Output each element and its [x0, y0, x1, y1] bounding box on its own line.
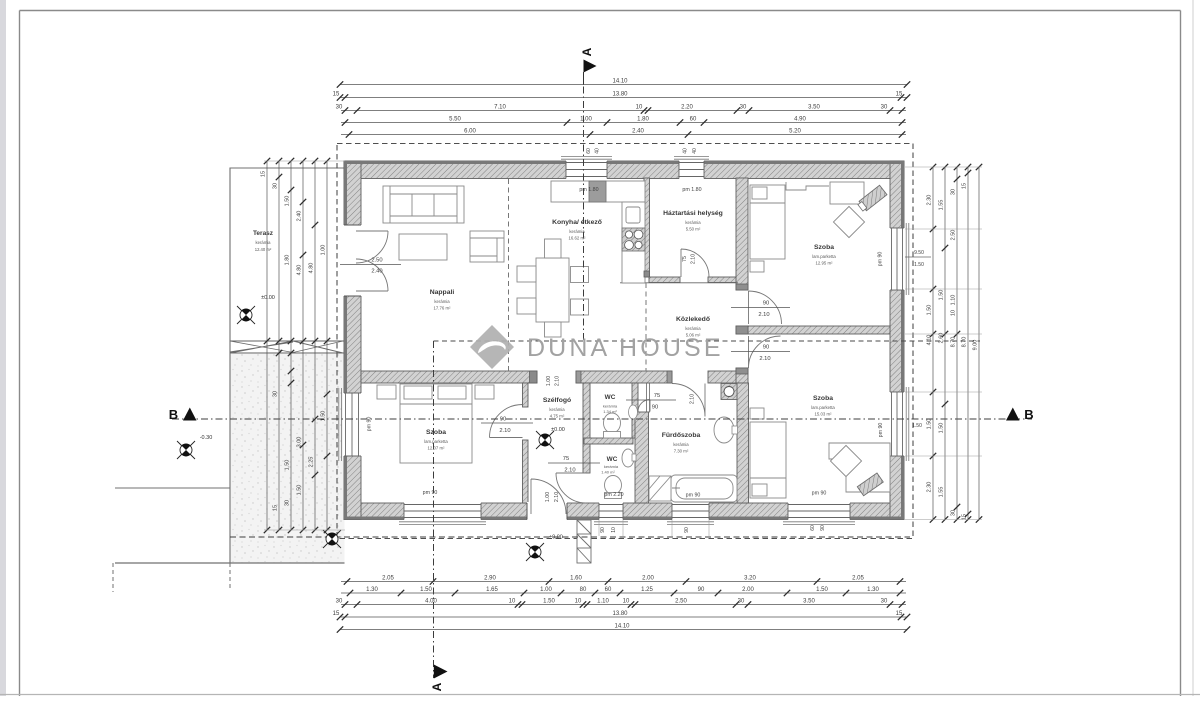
- svg-text:12.40 m²: 12.40 m²: [255, 247, 272, 252]
- svg-text:75: 75: [654, 393, 660, 399]
- laptop szoba BR (diagonal): [857, 473, 883, 496]
- section line B-B horizontal: [172, 418, 1032, 420]
- entry door opening: [527, 502, 567, 521]
- svg-text:A: A: [430, 682, 444, 691]
- window szoba BR east: [889, 392, 906, 456]
- toilet WC1: [604, 413, 621, 433]
- svg-text:pm 2.20: pm 2.20: [604, 492, 623, 498]
- svg-text:15: 15: [962, 514, 968, 520]
- svg-text:DUNA HOUSE: DUNA HOUSE: [527, 334, 723, 362]
- room label Haztartasi helyseg: [663, 210, 723, 232]
- section marker A top: [584, 60, 597, 73]
- svg-text:10: 10: [623, 599, 630, 605]
- wall left segment 1: [344, 161, 361, 225]
- wall end cap kitchen partition bottom: [644, 271, 650, 277]
- benchmark marker terrace: [237, 306, 255, 324]
- room label Konyha/etkezo: [552, 219, 602, 241]
- svg-text:75: 75: [563, 456, 569, 462]
- door szoba TR (90/2.10): [749, 291, 782, 324]
- svg-text:3.50: 3.50: [803, 599, 815, 605]
- svg-text:Fürdőszoba: Fürdőszoba: [662, 432, 701, 439]
- svg-text:1.00: 1.00: [540, 587, 552, 593]
- svg-text:90: 90: [500, 417, 506, 423]
- svg-text:30: 30: [738, 599, 745, 605]
- svg-text:15: 15: [896, 611, 903, 617]
- room label Szelfogo: [543, 397, 571, 419]
- svg-text:60: 60: [586, 148, 592, 154]
- svg-text:60: 60: [810, 525, 816, 531]
- door haztartasi (75/2.10): [681, 249, 709, 277]
- wall left segment 3: [344, 456, 361, 520]
- kitchen sink: [626, 207, 640, 223]
- partition stub between doors: [736, 326, 748, 334]
- svg-text:40: 40: [683, 148, 689, 154]
- building outer edge dark line: [346, 163, 903, 519]
- svg-text:1.80: 1.80: [637, 117, 649, 123]
- svg-text:1.50: 1.50: [939, 290, 945, 301]
- desk szoba TR: [830, 182, 864, 204]
- svg-text:10: 10: [951, 310, 957, 316]
- svg-text:1.50: 1.50: [543, 599, 555, 605]
- room label Kozlekedo: [676, 316, 710, 338]
- wall szelfogo right: [583, 383, 590, 473]
- svg-text:13.80: 13.80: [612, 611, 628, 617]
- wall szelfogo left upper: [523, 383, 529, 407]
- svg-text:kerámia: kerámia: [685, 220, 701, 225]
- kitchen counter top run: [551, 181, 645, 202]
- wardrobe shelf szoba TR: [786, 182, 829, 190]
- svg-text:1.10: 1.10: [597, 599, 609, 605]
- benchmark marker terrace corner: [323, 530, 341, 548]
- entry door leaf and arc: [531, 479, 566, 514]
- svg-text:2.10: 2.10: [555, 376, 561, 386]
- benchmark marker -0.30: [177, 441, 195, 459]
- svg-text:8.70: 8.70: [962, 337, 968, 348]
- svg-text:4.10: 4.10: [927, 335, 933, 346]
- window WC2 south: [599, 502, 623, 521]
- svg-text:2.30: 2.30: [927, 482, 933, 493]
- svg-text:80: 80: [580, 587, 587, 593]
- svg-text:kerámia: kerámia: [685, 326, 701, 331]
- left chain 2: [273, 158, 283, 533]
- svg-text:2.30: 2.30: [927, 195, 933, 206]
- plot boundary lines: [115, 487, 230, 489]
- room label Szoba top-right: [812, 244, 836, 266]
- svg-text:14.10: 14.10: [612, 79, 628, 85]
- section line A-A horizontal jog: [434, 340, 981, 342]
- wall bathroom right: [737, 383, 749, 503]
- shower tray bathroom: [649, 476, 671, 501]
- partition stub above mid wall: [736, 368, 748, 383]
- svg-text:1.80: 1.80: [285, 255, 291, 266]
- svg-text:2.90: 2.90: [484, 576, 496, 582]
- svg-text:13.80: 13.80: [612, 92, 628, 98]
- svg-text:10: 10: [509, 599, 516, 605]
- left chain 5: [309, 158, 319, 533]
- svg-text:30: 30: [881, 105, 888, 111]
- svg-text:2.50: 2.50: [675, 599, 687, 605]
- window kitchen (pm 1.80): [566, 160, 607, 180]
- svg-text:2.05: 2.05: [852, 576, 864, 582]
- svg-text:90: 90: [820, 525, 826, 531]
- svg-text:12.95 m²: 12.95 m²: [816, 261, 834, 266]
- svg-text:kerámia: kerámia: [256, 240, 272, 245]
- svg-text:3.50: 3.50: [808, 105, 820, 111]
- svg-text:30: 30: [273, 183, 279, 189]
- benchmark marker szelfogo: [536, 431, 554, 449]
- roof overhang dashed outline: [337, 144, 913, 539]
- svg-text:Szélfogó: Szélfogó: [543, 397, 571, 404]
- svg-text:2.40: 2.40: [632, 129, 644, 135]
- svg-text:Közlekedő: Közlekedő: [676, 316, 710, 323]
- dim chain top row 1 (14.10): [337, 79, 910, 88]
- wall top-left segment: [344, 161, 566, 179]
- svg-text:2.10: 2.10: [499, 428, 510, 434]
- svg-text:2.20: 2.20: [681, 105, 693, 111]
- svg-text:B: B: [169, 407, 178, 422]
- svg-text:B: B: [1024, 407, 1033, 422]
- svg-text:1.50: 1.50: [939, 423, 945, 434]
- svg-text:2.25: 2.25: [309, 457, 315, 468]
- door szoba BL (90/2.10): [490, 405, 523, 438]
- right extension lines: [905, 166, 982, 168]
- svg-text:5.20: 5.20: [789, 129, 801, 135]
- svg-text:1.50: 1.50: [321, 411, 327, 422]
- svg-text:4.80: 4.80: [309, 263, 315, 274]
- Duna House watermark logo diamond: [470, 325, 514, 369]
- svg-text:60: 60: [690, 117, 697, 123]
- wall haztartasi bottom-left: [649, 277, 680, 283]
- svg-text:Szoba: Szoba: [813, 395, 833, 402]
- svg-text:1.50: 1.50: [914, 262, 924, 268]
- left chain 6: [321, 158, 331, 533]
- svg-text:8.70: 8.70: [951, 337, 957, 348]
- wall szelfogo left lower: [523, 440, 529, 503]
- svg-text:30: 30: [881, 599, 888, 605]
- section marker B right: [1006, 408, 1020, 421]
- svg-text:A: A: [580, 47, 594, 56]
- svg-text:WC: WC: [605, 394, 616, 401]
- bed szoba BL: [400, 384, 472, 463]
- svg-text:kerámia: kerámia: [603, 404, 618, 409]
- dim chain bottom row 5 (14.10): [337, 624, 910, 633]
- svg-text:90: 90: [763, 301, 769, 307]
- wall end cap mid wall 2 right: [667, 371, 672, 383]
- section marker A bottom: [434, 665, 448, 679]
- dim chain top row 5: [341, 129, 906, 138]
- window haztartasi (pm 1.80): [679, 160, 704, 180]
- svg-text:pm 90: pm 90: [686, 493, 701, 499]
- svg-text:4.80: 4.80: [297, 265, 303, 276]
- wall bottom segment 5: [709, 503, 788, 520]
- open-plan divider konyha/kozlekedo: [645, 283, 647, 371]
- wall end cap mid wall 2 left: [576, 371, 581, 383]
- svg-text:30: 30: [740, 105, 747, 111]
- svg-text:17.76 m²: 17.76 m²: [434, 306, 452, 311]
- svg-text:1.00: 1.00: [321, 245, 327, 256]
- partition kitchen-haztartasi: [644, 178, 650, 277]
- chair szoba BR (rotated): [830, 445, 861, 476]
- page frame: [20, 10, 1181, 12]
- svg-text:2.10: 2.10: [758, 312, 769, 318]
- svg-text:90: 90: [763, 345, 769, 351]
- wall left segment 2: [344, 296, 361, 393]
- window bathroom south: [672, 502, 709, 521]
- svg-text:4.90: 4.90: [794, 117, 806, 123]
- svg-text:1.55: 1.55: [939, 487, 945, 498]
- room label Furdoszoba: [662, 432, 701, 454]
- dim chain bottom row 2: [341, 587, 906, 596]
- window szoba TR east: [889, 228, 906, 290]
- wall WC1-WC2: [584, 438, 633, 444]
- dining table: [536, 258, 569, 322]
- svg-text:15: 15: [261, 171, 267, 177]
- ground level dashed line below house: [230, 536, 910, 538]
- wall szoba TR south (thin): [748, 326, 890, 334]
- svg-text:pm 90: pm 90: [367, 417, 373, 432]
- svg-text:1.10: 1.10: [951, 295, 957, 306]
- dim chain top row 2 (13.80): [333, 92, 911, 101]
- left chain 4: [297, 158, 307, 533]
- terrace edge / ramp symbol: [230, 340, 345, 342]
- svg-text:16.62 m²: 16.62 m²: [569, 236, 587, 241]
- svg-text:15: 15: [333, 611, 340, 617]
- svg-text:7.10: 7.10: [494, 105, 506, 111]
- wall right segment 1: [890, 161, 904, 228]
- svg-text:1.50: 1.50: [297, 485, 303, 496]
- chair szoba TR (rotated): [833, 206, 864, 237]
- svg-text:90: 90: [698, 587, 705, 593]
- svg-text:1.50: 1.50: [927, 419, 933, 430]
- armchair nappali: [470, 231, 504, 262]
- kitchen counter right run: [622, 202, 645, 283]
- coffee table nappali: [399, 234, 447, 260]
- svg-text:90: 90: [684, 527, 690, 533]
- nightstand szoba BL left: [377, 385, 396, 399]
- right chain 2: [939, 164, 949, 523]
- wall bottom segment 6: [850, 503, 904, 520]
- wall bottom segment 2: [481, 503, 527, 520]
- wall end cap mid wall 1: [530, 371, 538, 383]
- svg-text:75: 75: [682, 256, 688, 262]
- svg-text:1.34 m²: 1.34 m²: [603, 409, 617, 414]
- svg-text:1.50: 1.50: [285, 196, 291, 207]
- wall right segment 3: [890, 456, 904, 520]
- right chain 3: [951, 164, 961, 523]
- svg-text:1.50: 1.50: [285, 460, 291, 471]
- left chain 1: [261, 158, 271, 533]
- svg-text:10: 10: [575, 599, 582, 605]
- svg-text:5.50 m²: 5.50 m²: [686, 227, 701, 232]
- svg-text:1.00: 1.00: [580, 117, 592, 123]
- washing machine bathroom: [721, 384, 737, 400]
- svg-text:4.75 m²: 4.75 m²: [550, 414, 565, 419]
- svg-text:Konyha/ étkező: Konyha/ étkező: [552, 219, 602, 226]
- svg-text:30: 30: [951, 510, 957, 516]
- svg-text:60: 60: [605, 587, 612, 593]
- wall WC1 right: [632, 383, 638, 438]
- svg-text:10: 10: [611, 527, 617, 533]
- svg-text:3.00: 3.00: [297, 437, 303, 448]
- wall top-right segment: [704, 161, 904, 179]
- page left gray strip: [0, 0, 6, 696]
- svg-text:Szoba: Szoba: [426, 429, 446, 436]
- dining chairs: [517, 239, 589, 337]
- svg-text:1.65: 1.65: [486, 587, 498, 593]
- svg-text:9.00: 9.00: [973, 340, 979, 351]
- window szoba BR south: [788, 502, 850, 521]
- svg-text:2.10: 2.10: [564, 468, 575, 474]
- wall WC2-bathroom: [635, 412, 649, 503]
- svg-text:Szoba: Szoba: [814, 244, 834, 251]
- svg-text:pm 90: pm 90: [423, 490, 438, 496]
- svg-text:Háztartási helység: Háztartási helység: [663, 210, 723, 217]
- door bathroom from corridor: [672, 383, 705, 416]
- terrace double door leaves and swing arcs: [356, 231, 388, 263]
- laptop szoba TR (diagonal): [857, 185, 887, 212]
- svg-text:pm 90: pm 90: [878, 252, 884, 267]
- svg-text:2.05: 2.05: [382, 576, 394, 582]
- svg-text:1.30: 1.30: [366, 587, 378, 593]
- svg-text:14.10: 14.10: [614, 624, 630, 630]
- svg-text:30: 30: [336, 599, 343, 605]
- terrace door opening: [343, 225, 362, 296]
- svg-text:30: 30: [951, 189, 957, 195]
- cooktop: [622, 228, 645, 251]
- partition haztartasi-szoba TR: [736, 178, 748, 290]
- left chain 3: [285, 158, 295, 533]
- wall bottom segment 3: [567, 503, 599, 520]
- svg-text:2.10: 2.10: [759, 356, 770, 362]
- svg-text:kerámia: kerámia: [434, 299, 450, 304]
- svg-text:2.00: 2.00: [742, 587, 754, 593]
- room label Szoba bottom-right: [811, 395, 835, 417]
- bed szoba TR: [750, 185, 785, 272]
- washbasin bathroom: [714, 417, 734, 443]
- door WC1 small swing: [638, 400, 650, 412]
- mid wall segment 3: [708, 371, 738, 383]
- dim chain top row 4: [341, 117, 906, 126]
- svg-text:±0.00: ±0.00: [549, 535, 563, 541]
- svg-text:WC: WC: [607, 456, 618, 463]
- wall top-middle segment: [607, 161, 679, 179]
- svg-text:lam.parketta: lam.parketta: [424, 439, 448, 444]
- nightstand szoba BL right: [475, 385, 494, 399]
- desk szoba BR (L-shape): [829, 443, 890, 492]
- svg-text:2.10: 2.10: [691, 254, 697, 264]
- wall haztartasi bottom-right: [708, 277, 737, 283]
- wall bottom segment 4: [623, 503, 672, 520]
- svg-text:kerámia: kerámia: [569, 229, 585, 234]
- ground stipple area left of house: [230, 354, 345, 563]
- svg-text:40: 40: [595, 148, 601, 154]
- svg-text:-0.30: -0.30: [200, 435, 213, 441]
- room label Szoba bottom-left: [424, 429, 448, 451]
- svg-text:lam.parketta: lam.parketta: [812, 254, 836, 259]
- svg-text:lam.parketta: lam.parketta: [811, 405, 835, 410]
- benchmark marker entry: [526, 543, 544, 561]
- svg-text:pm 90: pm 90: [878, 423, 884, 438]
- svg-text:Nappali: Nappali: [430, 289, 455, 296]
- svg-text:±0.00: ±0.00: [551, 427, 565, 433]
- room label Nappali: [430, 289, 455, 311]
- svg-text:2.50: 2.50: [371, 258, 382, 264]
- svg-text:1.50: 1.50: [816, 587, 828, 593]
- dim chain bottom row 1: [341, 576, 906, 585]
- dim chain top row 3: [336, 105, 906, 114]
- svg-text:15: 15: [962, 183, 968, 189]
- svg-text:Terasz: Terasz: [253, 230, 274, 237]
- svg-text:10: 10: [636, 105, 643, 111]
- svg-text:15.03 m²: 15.03 m²: [815, 412, 833, 417]
- svg-text:30: 30: [285, 500, 291, 506]
- svg-text:4.00: 4.00: [425, 599, 437, 605]
- sofa nappali: [383, 186, 464, 223]
- svg-text:1.00: 1.00: [545, 492, 551, 502]
- svg-text:7.30 m²: 7.30 m²: [674, 449, 689, 454]
- bathtub: [671, 475, 737, 502]
- svg-text:90: 90: [600, 527, 606, 533]
- window szoba BL south: [404, 502, 481, 521]
- dim chain bottom row 4 (13.80): [333, 611, 911, 620]
- thin niche line: [647, 383, 650, 412]
- entry steps outside: [577, 520, 591, 563]
- svg-text:2.50: 2.50: [951, 230, 957, 241]
- svg-text:1.00: 1.00: [546, 376, 552, 386]
- svg-text:15: 15: [333, 92, 340, 98]
- right chain 5: [973, 164, 983, 523]
- extension stubs below windows: [598, 520, 600, 536]
- dim chain bottom row 3: [336, 599, 906, 608]
- svg-text:1.25: 1.25: [641, 587, 653, 593]
- right chain 1: [927, 164, 937, 523]
- svg-text:2.10: 2.10: [690, 394, 696, 404]
- svg-text:30: 30: [273, 391, 279, 397]
- wall bottom segment 1: [344, 503, 404, 520]
- svg-text:2.00: 2.00: [642, 576, 654, 582]
- terrace outline: [230, 168, 345, 563]
- door szoba BR (90/2.10): [749, 336, 781, 368]
- window szoba BL west: [343, 393, 362, 456]
- svg-text:15: 15: [896, 92, 903, 98]
- svg-text:kerámia: kerámia: [604, 464, 619, 469]
- right chain 4: [962, 164, 972, 523]
- toilet WC2: [605, 476, 622, 495]
- svg-text:15: 15: [273, 505, 279, 511]
- svg-text:pm 1.80: pm 1.80: [682, 187, 701, 193]
- svg-text:pm 90: pm 90: [812, 491, 827, 497]
- corridor top edge line: [620, 282, 738, 284]
- mid wall segment 1 (bedroom BL top): [361, 371, 537, 383]
- door WC2 from szelfogo (75/2.10): [556, 473, 586, 503]
- svg-text:pm 1.80: pm 1.80: [579, 187, 598, 193]
- left extension lines: [264, 160, 345, 162]
- svg-text:1.50: 1.50: [420, 587, 432, 593]
- kitchen appliance block: [589, 181, 606, 202]
- svg-text:12.07 m²: 12.07 m²: [428, 446, 446, 451]
- wall right segment 2: [890, 290, 904, 392]
- svg-text:1.50: 1.50: [912, 423, 922, 429]
- svg-text:90: 90: [652, 405, 658, 411]
- section line A-A vertical top: [583, 72, 585, 341]
- svg-text:2.40: 2.40: [371, 269, 382, 275]
- svg-text:30: 30: [336, 105, 343, 111]
- svg-text:2.40: 2.40: [297, 211, 303, 222]
- svg-text:±0.00: ±0.00: [261, 295, 275, 301]
- svg-text:6.00: 6.00: [464, 129, 476, 135]
- svg-text:3.20: 3.20: [744, 576, 756, 582]
- washbasin WC1: [629, 405, 638, 419]
